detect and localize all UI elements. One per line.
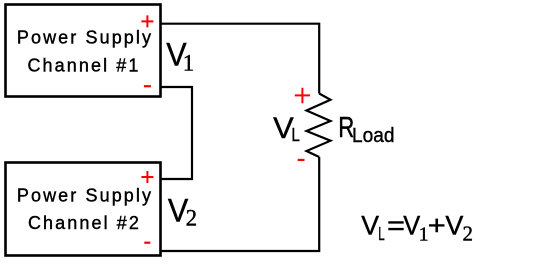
wire resistor bottom to PS2- xyxy=(161,157,319,251)
resistor plus terminal mark xyxy=(295,88,310,103)
svg-text:Channel #1: Channel #1 xyxy=(27,55,140,75)
equation VL=V1+V2 xyxy=(361,210,473,245)
svg-text:Channel #2: Channel #2 xyxy=(28,213,141,233)
svg-text:Power Supply: Power Supply xyxy=(17,186,153,206)
svg-text:1: 1 xyxy=(183,50,195,75)
power supply box PS2 xyxy=(6,163,161,256)
label RLoad xyxy=(338,112,394,147)
svg-text:Load: Load xyxy=(352,125,395,147)
resistor RLoad zigzag xyxy=(307,94,331,158)
PS1 minus terminal mark xyxy=(144,85,151,87)
power supply box PS1 xyxy=(6,5,161,97)
wire PS1- to PS2+ xyxy=(161,87,192,179)
resistor minus terminal mark xyxy=(298,159,305,161)
PS2 minus terminal mark xyxy=(144,242,150,244)
svg-text:+: + xyxy=(428,210,446,240)
svg-text:L: L xyxy=(378,224,385,244)
wire PS1+ to resistor top xyxy=(161,24,319,94)
svg-text:2: 2 xyxy=(186,206,198,231)
label V1 xyxy=(166,36,194,75)
svg-text:L: L xyxy=(291,125,300,145)
label V2 xyxy=(168,193,197,231)
svg-text:2: 2 xyxy=(463,222,474,246)
label VL xyxy=(273,112,300,145)
svg-text:V: V xyxy=(361,210,379,240)
PS1 plus terminal mark xyxy=(141,15,153,27)
PS2 plus terminal mark xyxy=(141,171,153,183)
svg-text:V: V xyxy=(445,210,463,240)
svg-text:Power Supply: Power Supply xyxy=(17,28,153,48)
